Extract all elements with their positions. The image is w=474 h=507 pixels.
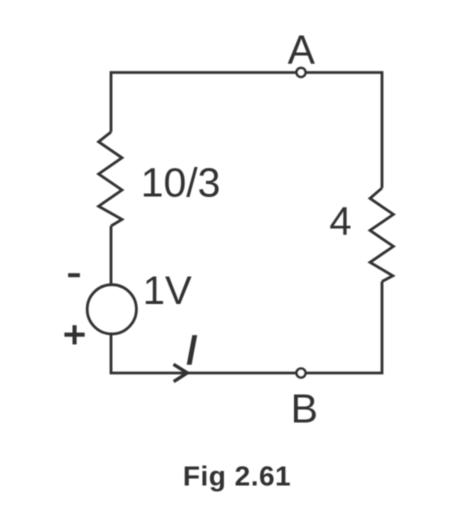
svg-text:B: B — [291, 386, 318, 432]
svg-text:1V: 1V — [143, 269, 192, 313]
svg-text:A: A — [288, 26, 316, 72]
svg-text:Fig 2.61: Fig 2.61 — [183, 460, 291, 491]
svg-text:10/3: 10/3 — [141, 159, 221, 205]
svg-text:4: 4 — [329, 200, 351, 244]
